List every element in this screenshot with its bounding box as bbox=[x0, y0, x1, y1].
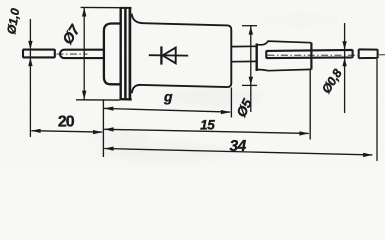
right cap bottom contour bbox=[257, 69, 312, 70]
wire lead left segment 2 (rounded end) bbox=[60, 50, 103, 58]
arrow 9 right bbox=[221, 110, 230, 114]
arrow 34 left bbox=[104, 147, 113, 151]
right lead segment 2 bbox=[359, 49, 378, 58]
arrow d0.8 down bbox=[342, 41, 346, 50]
d7 extension line top bbox=[81, 6, 120, 8]
dimension line 34 bbox=[104, 149, 372, 155]
d7 extension line bottom bbox=[76, 99, 120, 101]
faint scan smudges bbox=[88, 12, 340, 161]
arrow d5 up bbox=[249, 26, 253, 35]
arrow d5 down bbox=[249, 77, 253, 86]
centerline axis right bbox=[268, 54, 359, 56]
dimension line 9 bbox=[104, 108, 230, 112]
flange disc bbox=[119, 8, 121, 99]
d5 tick bottom bbox=[242, 84, 257, 86]
diode symbol triangle bbox=[163, 48, 176, 64]
dimension line 20 bbox=[31, 131, 102, 132]
right cap top contour bbox=[257, 41, 312, 45]
arrow 20 left bbox=[31, 129, 40, 133]
arrow 15 left bbox=[104, 127, 113, 131]
arrow d7 down bbox=[82, 91, 86, 100]
arrow d1.0 down bbox=[28, 41, 32, 50]
arrow 20 right bbox=[93, 130, 102, 134]
body outline bbox=[132, 14, 232, 94]
dimension line d7 bbox=[83, 8, 85, 100]
right cap collar edge bbox=[256, 43, 258, 71]
dimension line 15 bbox=[104, 129, 309, 133]
arrow d1.0 up bbox=[28, 58, 32, 67]
arrow d7 up bbox=[82, 8, 86, 17]
stub glass seal right of body bbox=[232, 46, 256, 61]
arrow d0.8 up bbox=[342, 58, 346, 66]
centerline axis right tail bbox=[379, 54, 385, 56]
arrow 34 right bbox=[363, 153, 372, 157]
extension line body right for 9 bbox=[230, 88, 232, 118]
dome cap left bbox=[104, 24, 120, 85]
arrow 15 right bbox=[299, 131, 308, 135]
right lead inside cap bbox=[266, 50, 352, 59]
dimension line d5 bbox=[250, 26, 252, 112]
extension line left (dome) for 9/15/34 bbox=[102, 99, 104, 157]
centerline axis left bbox=[57, 53, 88, 55]
extension line lead end for 34 bbox=[376, 59, 378, 161]
diode symbol lead bbox=[149, 54, 188, 56]
diode symbol cathode bar bbox=[160, 46, 162, 64]
right cap end edge bbox=[310, 43, 312, 70]
dimension line d1.0 / ext for 20 bbox=[29, 19, 31, 137]
d5 tick top bbox=[242, 25, 257, 27]
extension line cap right for 15 bbox=[309, 69, 311, 140]
dimension line d0.8 bbox=[344, 23, 346, 113]
wire lead left segment 1 bbox=[23, 49, 55, 57]
arrow 9 left bbox=[104, 107, 113, 111]
